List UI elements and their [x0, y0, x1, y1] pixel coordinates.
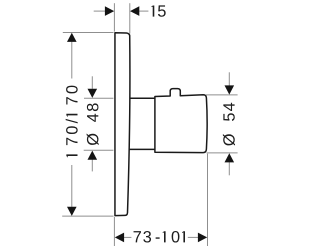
sleeve bottom line — [129, 148, 155, 150]
dim diameter48: lower tail — [91, 159, 93, 171]
dim diameter54: bottom extension line — [207, 152, 238, 154]
dim diameter54: top extension line — [206, 94, 238, 96]
dimension text 170/170 (rotated) — [66, 86, 78, 158]
dim diameter48 upper arrowhead (points down) — [88, 89, 98, 98]
dim diameter48: upper tail — [91, 76, 93, 89]
dim 73-101: left inner segment — [124, 236, 131, 238]
dim 15: left tail — [94, 10, 106, 12]
sleeve top line — [130, 97, 155, 99]
dim 73-101: right extension line — [207, 154, 209, 246]
dim diameter48: bottom extension line — [84, 149, 114, 151]
dimension text 73-101 — [134, 231, 185, 243]
dim 15: left extension line — [113, 3, 115, 31]
dim 170/170: dimension line upper segment — [71, 42, 73, 79]
dim 170/170 bottom arrowhead (points down) — [67, 207, 77, 216]
dim 170/170: top extension line — [63, 32, 114, 34]
dim 15 right arrowhead (points left) — [130, 6, 139, 16]
dimension text 15 — [151, 5, 165, 16]
dim 73-101: left extension line — [113, 217, 115, 246]
dim 15: right extension line — [129, 3, 131, 33]
dimension text diameter 54 (rotated) — [223, 103, 235, 146]
dim 170/170: bottom extension line — [62, 215, 113, 217]
dim 170/170 top arrowhead (points up) — [67, 33, 77, 42]
wall plate (side profile) — [115, 33, 130, 216]
dim 15 left arrowhead (points right) — [105, 6, 114, 16]
dim diameter48: top extension line — [84, 97, 113, 99]
dim 15: right tail — [139, 10, 148, 12]
dim diameter54 upper arrowhead (points down) — [225, 85, 235, 94]
dim diameter54: lower tail — [228, 162, 230, 175]
dim diameter54: upper tail — [228, 72, 230, 86]
dim 73-101 left arrowhead (points left) — [115, 233, 124, 243]
dim diameter54 lower arrowhead (points up) — [225, 153, 235, 162]
dim 73-101: right inner segment — [188, 236, 198, 238]
dim 170/170: dimension line lower segment — [71, 165, 73, 207]
dimension text diameter 48 (rotated) — [87, 103, 99, 145]
dim 73-101 right arrowhead (points right) — [198, 233, 207, 243]
handle with button (side profile) — [155, 89, 207, 153]
dim diameter48 lower arrowhead (points up) — [88, 151, 98, 160]
